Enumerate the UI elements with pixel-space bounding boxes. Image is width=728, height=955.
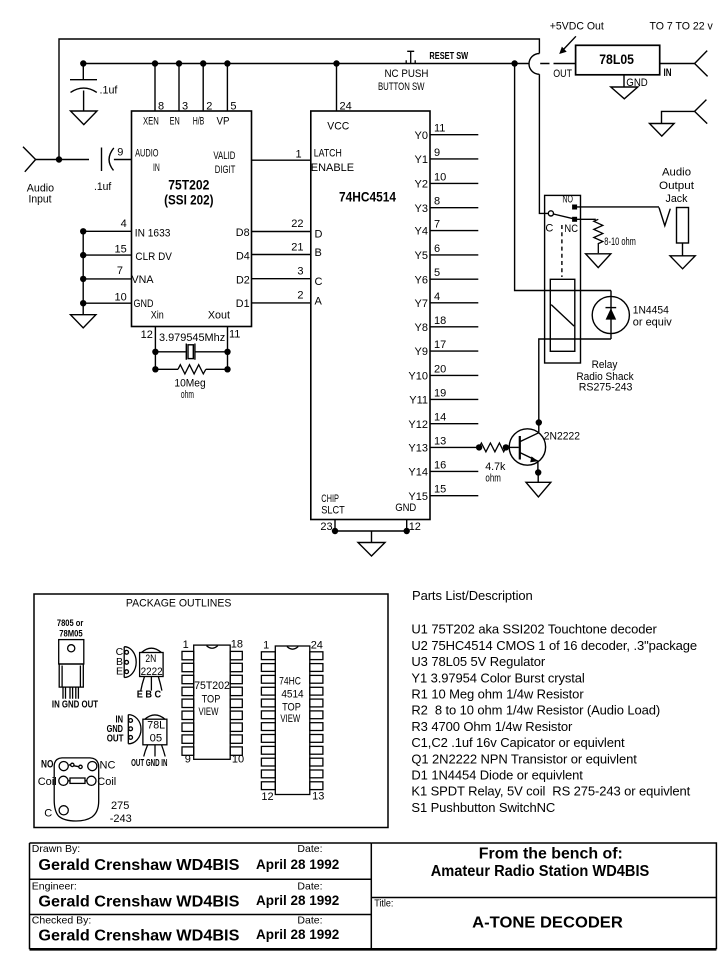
svg-text:23: 23 <box>320 521 332 533</box>
diode D1 triangle <box>606 308 617 319</box>
package 2N2222 legs <box>141 677 162 691</box>
svg-text:Amateur Radio Station WD4BIS: Amateur Radio Station WD4BIS <box>431 863 650 880</box>
op-amp U2 74HC4514 box <box>311 111 430 520</box>
wire Y3 <box>430 207 478 209</box>
diode D1 branch wire <box>610 291 612 340</box>
svg-text:Input: Input <box>29 194 52 206</box>
svg-text:Parts List/Description: Parts List/Description <box>412 588 533 603</box>
svg-text:10: 10 <box>115 291 127 303</box>
node bus pin4 <box>80 228 86 234</box>
svg-text:15: 15 <box>434 484 446 496</box>
svg-text:GND: GND <box>134 298 154 310</box>
wire Y8 <box>430 326 478 328</box>
svg-text:U2 75HC4514 CMOS 1 of 16 decod: U2 75HC4514 CMOS 1 of 16 decoder, .3"pac… <box>411 638 697 653</box>
wire Y14 <box>430 470 478 472</box>
svg-text:DIGIT: DIGIT <box>215 164 236 176</box>
wire C2 to pin9 <box>114 159 132 161</box>
relay K1 coil box <box>550 279 575 351</box>
svg-text:NC: NC <box>564 223 578 235</box>
wire Y6 <box>430 278 478 280</box>
svg-text:8: 8 <box>434 196 440 208</box>
svg-text:Relay: Relay <box>592 359 618 371</box>
package 7805 hole <box>68 645 75 652</box>
svg-text:1: 1 <box>263 640 269 652</box>
PARTS-LIST <box>411 588 697 815</box>
DIP24 right pins <box>310 652 323 660</box>
svg-text:Y15: Y15 <box>408 491 428 503</box>
wire NO to jack <box>576 206 659 208</box>
transistor Q1 emitter arrow <box>530 456 538 462</box>
svg-text:10: 10 <box>232 753 244 765</box>
svg-text:R3 4700 Ohm 1/4w Resistor: R3 4700 Ohm 1/4w Resistor <box>411 719 573 734</box>
svg-text:TOP: TOP <box>282 702 301 714</box>
svg-text:VIEW: VIEW <box>199 706 219 718</box>
svg-text:19: 19 <box>434 387 446 399</box>
package 7805 lower body <box>59 664 83 687</box>
svg-text:Y6: Y6 <box>415 274 428 286</box>
svg-text:Checked By:: Checked By: <box>32 915 92 927</box>
wire top line down to relay common <box>539 74 548 213</box>
relay switch detail <box>69 765 80 767</box>
svg-text:11: 11 <box>229 329 240 341</box>
node rail C1 <box>80 60 86 66</box>
svg-text:74HC: 74HC <box>279 676 301 688</box>
svg-text:April 28 1992: April 28 1992 <box>256 857 339 872</box>
svg-text:U3 78L05 5V Regulator: U3 78L05 5V Regulator <box>411 654 546 669</box>
svg-text:U1 75T202 aka SSI202 Touchtone: U1 75T202 aka SSI202 Touchtone decoder <box>411 622 657 637</box>
svg-text:9: 9 <box>434 147 440 159</box>
node rail pin5 <box>224 60 230 66</box>
svg-text:3: 3 <box>182 101 188 113</box>
svg-text:CLR DV: CLR DV <box>135 251 172 263</box>
capacitor C2 curved plate <box>109 148 114 171</box>
wire jack sleeve to ground <box>682 243 684 256</box>
wire Y0 <box>430 134 478 136</box>
package 78L05 pins <box>129 719 133 723</box>
relay K1 NO contact <box>573 205 577 209</box>
svg-text:9: 9 <box>185 753 191 765</box>
svg-text:CHIP: CHIP <box>321 493 339 505</box>
svg-text:VALID: VALID <box>213 150 235 162</box>
svg-text:74HC4514: 74HC4514 <box>339 190 396 205</box>
wire 75T202 left pin 7 <box>83 278 131 280</box>
svg-text:EN: EN <box>170 116 180 128</box>
node collector <box>536 419 542 425</box>
svg-text:.1uf: .1uf <box>94 181 112 193</box>
svg-text:18: 18 <box>434 315 446 327</box>
node audio input junction <box>56 156 62 162</box>
svg-text:TO 7 TO 22 v: TO 7 TO 22 v <box>650 21 714 33</box>
svg-text:16: 16 <box>434 459 446 471</box>
ground under 4514 <box>358 543 385 557</box>
node rail pin3 <box>176 60 182 66</box>
crystal Y1 plates <box>186 344 195 360</box>
wire Y5 <box>430 254 478 256</box>
svg-text:NO: NO <box>41 758 54 770</box>
wire C1 to ground <box>83 91 85 112</box>
svg-text:Jack: Jack <box>666 193 688 205</box>
svg-text:Y1 3.97954 Color Burst crystal: Y1 3.97954 Color Burst crystal <box>411 670 585 685</box>
svg-text:78L: 78L <box>147 719 165 731</box>
svg-text:Engineer:: Engineer: <box>32 881 77 893</box>
svg-text:20: 20 <box>434 363 446 375</box>
audio output jack tip <box>659 208 670 226</box>
DIP18 left pins <box>182 651 194 659</box>
node emitter <box>535 469 541 475</box>
connector audio input <box>23 147 36 172</box>
svg-text:PACKAGE OUTLINES: PACKAGE OUTLINES <box>126 597 231 609</box>
connector power return <box>695 100 708 124</box>
svg-text:From the bench of:: From the bench of: <box>479 846 623 863</box>
connector power input <box>695 51 708 77</box>
wire NC to load resistor <box>576 218 595 220</box>
svg-text:Y2: Y2 <box>415 179 428 191</box>
svg-text:NC: NC <box>100 760 116 772</box>
package 7805 TO-220 body <box>59 640 84 664</box>
wire 78L05 IN <box>660 63 695 65</box>
svg-text:Coil: Coil <box>38 776 57 788</box>
wire Y12 <box>430 423 478 425</box>
svg-text:VNA: VNA <box>132 274 155 286</box>
+5V rail <box>83 63 576 65</box>
svg-text:Xin: Xin <box>151 310 164 322</box>
svg-text:Audio: Audio <box>27 182 54 194</box>
svg-text:April 28 1992: April 28 1992 <box>256 893 339 908</box>
svg-text:S1 Pushbutton SwitchNC: S1 Pushbutton SwitchNC <box>411 800 555 815</box>
svg-text:ohm: ohm <box>485 472 501 484</box>
svg-text:13: 13 <box>312 791 324 803</box>
node rail pin24 <box>333 60 339 66</box>
svg-text:Y0: Y0 <box>415 130 428 142</box>
resistor R1 10Meg zigzag <box>178 365 206 374</box>
capacitor C2 .1uf series plate <box>101 148 103 172</box>
wire power return <box>662 111 695 123</box>
svg-text:Date:: Date: <box>297 843 322 855</box>
svg-text:2N2222: 2N2222 <box>544 431 580 443</box>
wire Y15 <box>430 495 478 497</box>
svg-text:5: 5 <box>434 267 440 279</box>
node bus pin7 <box>80 276 86 282</box>
svg-text:AUDIO: AUDIO <box>135 148 159 160</box>
svg-text:OUT: OUT <box>553 68 572 80</box>
crystal Y1 body <box>188 345 193 359</box>
svg-text:.1uf: .1uf <box>100 85 119 97</box>
svg-text:Coil: Coil <box>97 776 116 788</box>
svg-text:8-10 ohm: 8-10 ohm <box>604 236 636 248</box>
wire D4 to B <box>252 254 311 256</box>
relay coil bar <box>70 778 85 783</box>
pin stub 12 Xin <box>154 327 156 370</box>
pin stub 8 XEN <box>154 64 156 112</box>
svg-text:SLCT: SLCT <box>321 505 345 517</box>
wire D2 to C <box>252 278 311 280</box>
ground under Q1 emitter <box>526 473 551 497</box>
arrow +5VDC out pointer <box>563 36 576 50</box>
svg-text:VP: VP <box>217 116 230 128</box>
pin stub 3 EN <box>178 64 180 112</box>
node xtal right bottom <box>224 366 230 372</box>
svg-text:ENABLE: ENABLE <box>311 162 354 174</box>
package outlines frame <box>34 594 388 828</box>
svg-text:Y9: Y9 <box>415 346 428 358</box>
wire hop over +5V rail <box>529 54 539 75</box>
svg-text:C: C <box>545 222 553 234</box>
svg-text:NC PUSH: NC PUSH <box>385 68 429 80</box>
relay pad common <box>59 806 68 815</box>
node xtal left bottom <box>152 366 158 372</box>
relay pad NC <box>88 762 97 771</box>
svg-text:NO: NO <box>562 193 573 205</box>
svg-text:E B C: E B C <box>137 688 162 700</box>
op-amp U1 75T202 box <box>132 111 252 327</box>
svg-text:11: 11 <box>434 123 445 135</box>
svg-text:LATCH: LATCH <box>314 148 342 160</box>
svg-text:12: 12 <box>409 521 421 533</box>
package relay 275-243 outline <box>54 758 98 821</box>
pin stub 12 gnd <box>406 520 408 532</box>
svg-text:Y12: Y12 <box>408 419 428 431</box>
svg-text:(SSI 202): (SSI 202) <box>164 192 213 207</box>
node bus pin15 <box>80 252 86 258</box>
pushbutton S1 reset switch <box>406 51 415 63</box>
svg-text:D2: D2 <box>236 274 250 286</box>
transistor Q1 base bar <box>519 436 521 460</box>
svg-text:H/B: H/B <box>193 116 205 128</box>
relay pad NO <box>59 762 68 771</box>
ground under 78L05 <box>611 87 638 99</box>
svg-text:E: E <box>116 665 123 677</box>
svg-text:April 28 1992: April 28 1992 <box>256 927 339 942</box>
ground under jack <box>670 256 695 269</box>
svg-text:Y11: Y11 <box>409 395 428 407</box>
svg-text:C: C <box>315 276 323 288</box>
svg-text:GND: GND <box>626 77 648 89</box>
capacitor C1 flat plate <box>70 79 97 81</box>
relay K1 outline box <box>545 195 581 363</box>
wire D1 to A <box>252 302 311 304</box>
relay pad coil left <box>59 776 68 785</box>
svg-text:4514: 4514 <box>281 689 303 701</box>
svg-text:Y4: Y4 <box>415 226 428 238</box>
transistor Q1 collector <box>520 423 539 442</box>
package DIP18 75T202 body <box>194 645 231 759</box>
svg-text:Gerald Crenshaw WD4BIS: Gerald Crenshaw WD4BIS <box>38 928 239 945</box>
svg-text:8: 8 <box>158 101 164 113</box>
svg-text:Drawn By:: Drawn By: <box>32 843 80 855</box>
svg-text:or equiv: or equiv <box>633 317 672 329</box>
wire ground bus 75T202 <box>82 231 84 314</box>
title block frame left <box>30 843 717 949</box>
wire 75T202 left pin 4 <box>83 230 131 232</box>
svg-text:A: A <box>315 296 323 308</box>
svg-text:D1: D1 <box>236 298 250 310</box>
relay K1 common contact <box>548 211 553 216</box>
svg-text:Output: Output <box>659 180 694 192</box>
svg-text:Y5: Y5 <box>415 250 428 262</box>
package 78L05 TO-92 side <box>128 715 141 744</box>
node xtal right top <box>224 349 230 355</box>
svg-text:GND: GND <box>395 502 416 514</box>
relay K1 mechanical link <box>561 225 563 277</box>
svg-text:IN: IN <box>153 162 160 174</box>
wire crystal row <box>155 351 227 353</box>
svg-text:Xout: Xout <box>208 310 230 322</box>
svg-text:Y7: Y7 <box>415 298 428 310</box>
svg-text:4: 4 <box>121 218 127 230</box>
svg-text:C1,C2 .1uf 16v Capicator or eq: C1,C2 .1uf 16v Capicator or equivlent <box>411 735 625 750</box>
svg-text:1: 1 <box>296 148 302 160</box>
svg-text:IN: IN <box>664 67 672 79</box>
wire 75T202 left pin 15 <box>83 254 131 256</box>
svg-text:24: 24 <box>340 101 352 113</box>
node rail relay feed <box>511 60 517 66</box>
svg-text:7: 7 <box>117 265 123 277</box>
wire 78L05 GND pin <box>623 75 625 87</box>
wire Y1 <box>430 158 478 160</box>
svg-text:Y3: Y3 <box>415 203 428 215</box>
svg-text:14: 14 <box>434 412 446 424</box>
svg-text:VIEW: VIEW <box>280 713 300 725</box>
pin stub 11 Xout <box>227 327 229 370</box>
svg-text:21: 21 <box>291 241 303 253</box>
svg-text:Y10: Y10 <box>408 371 428 383</box>
TITLE-BLOCK <box>30 843 717 950</box>
node 4514 gnd 12 <box>404 528 410 534</box>
wire Y11 <box>430 398 478 400</box>
relay K1 coil diagonal <box>551 305 574 327</box>
svg-text:K1 SPDT Relay, 5V coil RS 275: K1 SPDT Relay, 5V coil RS 275-243 or equ… <box>411 784 690 799</box>
svg-text:1N4454: 1N4454 <box>633 304 669 316</box>
wire +5V to relay coil feed <box>515 64 611 291</box>
package 2N2222 TO-92 side <box>124 647 136 678</box>
diode D1 circle <box>592 296 629 333</box>
resistor R3 4.7k zigzag <box>479 443 506 452</box>
svg-text:RS275-243: RS275-243 <box>579 381 633 393</box>
title block frame right <box>371 843 716 949</box>
svg-text:BUTTON SW: BUTTON SW <box>378 81 425 93</box>
svg-text:IN GND OUT: IN GND OUT <box>52 699 99 711</box>
svg-text:D1 1N4454 Diode or equivlent: D1 1N4454 Diode or equivlent <box>411 768 583 783</box>
package 2N2222 body front <box>140 653 164 677</box>
svg-text:78M05: 78M05 <box>59 629 83 640</box>
svg-text:Y1: Y1 <box>415 154 428 166</box>
node rail pin2 <box>200 60 206 66</box>
svg-text:+5VDC Out: +5VDC Out <box>550 21 604 33</box>
svg-text:RESET SW: RESET SW <box>429 51 468 62</box>
ground under 75T202 bus <box>71 315 96 328</box>
svg-text:2N: 2N <box>145 653 156 665</box>
ground under C1 <box>71 111 98 125</box>
package 2N2222 pins <box>125 650 129 654</box>
svg-text:18: 18 <box>231 639 243 651</box>
wire 75T202 left pin 10 <box>83 302 131 304</box>
wire resistor R1 row <box>155 368 227 370</box>
svg-text:Y14: Y14 <box>408 467 428 479</box>
capacitor C1 curved plate <box>71 88 97 92</box>
wire Y13 <box>430 446 479 448</box>
svg-text:Q1 2N2222 NPN Transistor or eq: Q1 2N2222 NPN Transistor or equivlent <box>411 751 637 766</box>
svg-text:OUT: OUT <box>107 733 124 745</box>
svg-text:7: 7 <box>434 219 440 231</box>
svg-text:3: 3 <box>297 265 303 277</box>
svg-text:24: 24 <box>311 640 323 652</box>
transistor Q1 emitter <box>520 453 538 473</box>
svg-text:10Meg: 10Meg <box>174 377 205 389</box>
svg-text:2: 2 <box>206 101 212 113</box>
svg-text:05: 05 <box>150 732 163 744</box>
svg-text:Audio: Audio <box>662 167 691 179</box>
svg-text:Y13: Y13 <box>408 443 428 455</box>
svg-text:75T202: 75T202 <box>168 178 209 193</box>
svg-text:3.979545Mhz: 3.979545Mhz <box>159 332 225 344</box>
svg-text:Y8: Y8 <box>415 322 428 334</box>
svg-text:10: 10 <box>434 171 446 183</box>
node xtal left top <box>152 349 158 355</box>
audio output jack body <box>677 208 689 244</box>
svg-text:Gerald Crenshaw WD4BIS: Gerald Crenshaw WD4BIS <box>38 893 239 910</box>
capacitor C1 .1uf stem <box>82 64 84 80</box>
svg-text:Title:: Title: <box>374 897 393 909</box>
svg-text:D: D <box>315 228 323 240</box>
svg-text:B: B <box>315 247 322 259</box>
svg-text:XEN: XEN <box>143 116 159 128</box>
svg-text:12: 12 <box>261 791 273 803</box>
pin stub 2 H/B <box>202 64 204 112</box>
package DIP24 74HC4514 body <box>275 646 310 795</box>
title block bottom edge <box>30 948 717 951</box>
package 78L05 body front <box>143 719 167 745</box>
svg-text:ohm: ohm <box>181 389 194 401</box>
svg-text:TOP: TOP <box>202 694 221 706</box>
svg-text:17: 17 <box>434 339 446 351</box>
svg-text:78L05: 78L05 <box>599 52 634 67</box>
DIP24 left pins <box>261 652 275 660</box>
pin stub 24 VCC <box>336 64 338 112</box>
transistor Q1 circle <box>509 429 545 465</box>
wire audio-input to junction <box>36 159 89 161</box>
svg-text:4.7k: 4.7k <box>485 461 506 473</box>
svg-text:A-TONE DECODER: A-TONE DECODER <box>472 915 623 932</box>
wire Y7 <box>430 302 478 304</box>
svg-text:7805 or: 7805 or <box>57 618 84 629</box>
wire Y4 <box>430 230 478 232</box>
resistor R2 8-10 ohm zigzag <box>594 219 603 253</box>
package 7805 legs <box>63 687 78 699</box>
wire Y9 <box>430 350 478 352</box>
svg-text:13: 13 <box>434 435 446 447</box>
DIP18 right pins <box>230 651 242 659</box>
node Y13 resistor left <box>476 444 482 450</box>
svg-text:4: 4 <box>434 291 440 303</box>
node 4514 gnd 23 <box>332 528 338 534</box>
ground under R2 <box>586 254 611 268</box>
svg-text:1: 1 <box>183 639 189 651</box>
svg-text:D4: D4 <box>236 250 250 262</box>
svg-text:R1 10 Meg ohm 1/4w Resistor: R1 10 Meg ohm 1/4w Resistor <box>411 687 584 702</box>
regulator U3 78L05 box <box>576 45 660 75</box>
pin stub 5 VP <box>226 64 228 112</box>
relay pad coil right <box>87 776 96 785</box>
svg-text:Date:: Date: <box>297 881 322 893</box>
svg-text:275: 275 <box>111 800 129 812</box>
pin stub 23 chip-select <box>334 520 336 532</box>
svg-text:22: 22 <box>291 218 303 230</box>
diode D1 cathode bar <box>606 307 617 309</box>
svg-text:15: 15 <box>115 243 127 255</box>
relay K1 blade <box>553 214 572 219</box>
svg-text:D8: D8 <box>236 227 250 239</box>
svg-text:6: 6 <box>434 243 440 255</box>
